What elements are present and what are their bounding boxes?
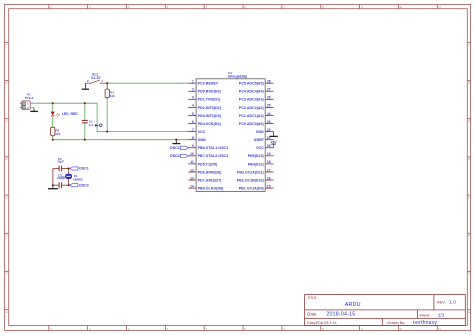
wire LED to R2 segment [52, 117, 54, 127]
U1 pin 28 PC5.ADC5(A5) (right) [239, 80, 274, 86]
svg-text:23: 23 [267, 120, 271, 124]
svg-text:22pF: 22pF [57, 159, 64, 163]
capacitor C1 0.1 [82, 119, 94, 127]
svg-text:D: D [6, 157, 8, 161]
svg-text:4: 4 [192, 104, 194, 108]
svg-text:C: C [468, 119, 470, 123]
svg-text:AREF: AREF [254, 138, 265, 142]
svg-text:8: 8 [192, 136, 194, 140]
svg-text:PD6.AIN0(D6): PD6.AIN0(D6) [198, 170, 223, 174]
ground symbol at U1 pin22 GND [269, 132, 278, 137]
U1 pin 15 PB1.OC1A(D9) (right) [239, 184, 274, 190]
U1 pin 1 PC6.RESET (left) [188, 80, 219, 86]
svg-text:OSC1: OSC1 [79, 167, 89, 171]
svg-text:25: 25 [267, 104, 271, 108]
resistor R2 470 [51, 127, 61, 136]
svg-text:27: 27 [267, 88, 271, 92]
U1 pin 19 PB5(D13) (right) [248, 152, 274, 158]
svg-text:PD4.XCK(D4): PD4.XCK(D4) [198, 122, 222, 126]
svg-text:PD0.RXD(D0): PD0.RXD(D0) [198, 90, 222, 94]
svg-text:PB4(D12): PB4(D12) [248, 162, 265, 166]
svg-text:18: 18 [267, 160, 271, 164]
svg-text:2018-04-15: 2018-04-15 [326, 311, 355, 317]
svg-text:VCC: VCC [256, 146, 264, 150]
svg-text:G: G [6, 272, 8, 276]
svg-text:19: 19 [267, 152, 271, 156]
svg-text:PLS-2: PLS-2 [25, 96, 34, 100]
svg-text:G: G [468, 272, 470, 276]
svg-text:D: D [468, 157, 470, 161]
U1 pin 20 VCC (right) [256, 144, 273, 150]
junction node OSC1 at crystal [68, 167, 70, 169]
svg-text:PC4.ADC4(A4): PC4.ADC4(A4) [239, 90, 265, 94]
resistor R1 10k [105, 83, 115, 98]
svg-text:1: 1 [192, 80, 194, 84]
capacitor C3 22pF [53, 173, 69, 188]
U1 pin 5 PD3.INT1(D3) (left) [188, 112, 221, 118]
LED LED_RED [51, 112, 78, 117]
U1 pin 16 PB2.OC1B(D10) (right) [237, 176, 274, 182]
svg-text:5: 5 [192, 112, 194, 116]
wire P1 pin2 to ground [30, 108, 34, 111]
U1 pin 4 PD2.INT0(D2) (left) [188, 104, 221, 110]
svg-text:GND: GND [256, 130, 264, 134]
net flag arrow-circle beside C1 value [95, 124, 102, 127]
svg-text:1.0: 1.0 [449, 300, 456, 305]
svg-text:E: E [468, 195, 470, 199]
wire LED branch upper segment [52, 103, 54, 111]
svg-text:26: 26 [267, 96, 271, 100]
svg-text:PB3.OC2A(D11): PB3.OC2A(D11) [237, 170, 265, 174]
svg-text:12: 12 [190, 168, 194, 172]
junction node VCC rail at R1 [106, 131, 108, 133]
svg-text:PD2.INT0(D2): PD2.INT0(D2) [198, 106, 222, 110]
U1 pin 27 PC4.ADC4(A4) (right) [239, 88, 274, 94]
U1 pin 24 PC1.ADC1(A1) (right) [239, 112, 274, 118]
crystal X1 16MHZ [61, 169, 83, 186]
svg-text:EasyEDA V5.3.14: EasyEDA V5.3.14 [307, 321, 336, 325]
junction node crystal ground [52, 184, 54, 186]
svg-text:B: B [468, 81, 470, 85]
junction node OSC2 at crystal [68, 184, 70, 186]
svg-text:24: 24 [267, 112, 271, 116]
U1 pin 3 PD1.TXD(D1) (left) [188, 96, 221, 102]
capacitor C2 22pF [53, 157, 69, 172]
U1 pin 11 PD5.T1(D5) (left) [188, 160, 218, 166]
svg-text:14: 14 [190, 184, 194, 188]
switch KL1 KL-S7 [86, 72, 108, 83]
svg-text:OSC2: OSC2 [79, 183, 89, 187]
svg-text:TITLE:: TITLE: [307, 296, 317, 300]
svg-text:+5V: +5V [270, 140, 277, 144]
svg-text:A: A [6, 43, 8, 47]
U1 pin 26 PC3.ADC3(A3) (right) [239, 96, 274, 102]
U1 pin 6 PD4.XCK(D4) (left) [188, 120, 221, 126]
U1 pin 2 PD0.RXD(D0) (left) [188, 88, 221, 94]
ground symbol below P1 [30, 109, 38, 112]
svg-text:PD5.T1(D5): PD5.T1(D5) [198, 162, 218, 166]
connector P1 PLS-2 [20, 92, 34, 110]
U1 pin 14 PB0.CLKO(D8) (left) [188, 184, 224, 190]
svg-text:OSC2: OSC2 [170, 154, 180, 158]
svg-text:OSC1: OSC1 [170, 146, 180, 150]
svg-text:PB7.XTAL2.OSC2: PB7.XTAL2.OSC2 [198, 154, 229, 158]
svg-text:7: 7 [192, 128, 194, 132]
U1 pin 8 GND (left) [188, 136, 206, 142]
svg-text:28: 28 [267, 80, 271, 84]
U1 pin 22 GND (right) [256, 128, 274, 134]
svg-text:E: E [6, 195, 8, 199]
svg-text:21: 21 [267, 136, 271, 140]
U1 pin 21 AREF (right) [254, 136, 274, 142]
svg-text:H: H [468, 310, 470, 314]
svg-text:15: 15 [267, 184, 271, 188]
title block [305, 295, 466, 326]
svg-text:17: 17 [267, 168, 271, 172]
svg-text:PB2.OC1B(D10): PB2.OC1B(D10) [237, 178, 265, 182]
svg-text:C: C [6, 119, 8, 123]
svg-text:KL-S7: KL-S7 [91, 76, 100, 80]
svg-text:H: H [6, 310, 8, 314]
net port OSC2 at crystal [70, 183, 89, 187]
wire C1 upper segment [84, 103, 86, 120]
svg-text:11: 11 [190, 160, 194, 164]
svg-text:22: 22 [267, 128, 271, 132]
svg-text:GND: GND [198, 138, 207, 142]
svg-text:REV:: REV: [437, 301, 446, 305]
svg-text:A: A [468, 43, 470, 47]
net port OSC1 at U1 pin9 [170, 146, 189, 150]
wire R2 to GND rail segment [52, 136, 54, 140]
ground symbol below crystal column [48, 185, 58, 189]
svg-text:PB1.OC1A(D9): PB1.OC1A(D9) [239, 186, 265, 190]
svg-text:9: 9 [192, 144, 194, 148]
svg-text:10k: 10k [110, 94, 115, 98]
svg-text:PB0.CLKO(D8): PB0.CLKO(D8) [198, 186, 225, 190]
IC U1 atmega328p [196, 71, 265, 191]
svg-text:Drawn By:: Drawn By: [387, 320, 405, 325]
svg-text:northnavy: northnavy [413, 320, 437, 326]
svg-text:VCC: VCC [198, 130, 206, 134]
svg-text:470: 470 [55, 132, 60, 136]
U1 pin 23 PC0.ADC0(A0) (right) [239, 120, 274, 126]
svg-text:PC0.ADC0(A0): PC0.ADC0(A0) [239, 122, 265, 126]
svg-text:PD7.AIN1(D7): PD7.AIN1(D7) [198, 178, 223, 182]
svg-text:16MHZ: 16MHZ [73, 178, 83, 182]
U1 pin 13 PD7.AIN1(D7) (left) [188, 176, 222, 182]
ground symbol at U1 pin8 GND [172, 140, 180, 144]
wire crystal left column C2-C3 [52, 169, 54, 186]
wire RESET net from switch to U1 pin1 [107, 82, 188, 84]
svg-text:LED_RED: LED_RED [62, 112, 78, 116]
svg-text:PC2.ADC2(A2): PC2.ADC2(A2) [239, 106, 265, 110]
svg-text:Sheet:: Sheet: [419, 314, 430, 318]
svg-text:PC1.ADC1(A1): PC1.ADC1(A1) [239, 114, 265, 118]
svg-text:PD3.INT1(D3): PD3.INT1(D3) [198, 114, 222, 118]
wire R1 to VCC rail segment [106, 98, 108, 132]
U1 pin 18 PB4(D12) (right) [248, 160, 274, 166]
junction node RESET at R1 [106, 82, 108, 84]
junction node top rail at C1 [84, 102, 86, 104]
svg-text:0.1: 0.1 [89, 123, 94, 127]
+5V power flag at U1 pin20 VCC [270, 140, 277, 147]
U1 pin 12 PD6.AIN0(D6) (left) [188, 168, 222, 174]
junction node GND rail at ground symbol [175, 139, 177, 141]
svg-text:ARDU: ARDU [345, 302, 361, 308]
svg-text:Date:: Date: [307, 311, 317, 316]
svg-text:PC5.ADC5(A5): PC5.ADC5(A5) [239, 82, 265, 86]
U1 pin 17 PB3.OC2A(D11) (right) [237, 168, 274, 174]
svg-text:3: 3 [192, 96, 194, 100]
net port OSC2 at U1 pin10 [170, 154, 189, 158]
junction node GND rail at C1 [84, 139, 86, 141]
svg-text:20: 20 [267, 144, 271, 148]
U1 pin 10 PB7.XTAL2.OSC2 (left) [188, 152, 228, 158]
svg-text:PB5(D13): PB5(D13) [248, 154, 265, 158]
U1 pin 7 VCC (left) [188, 128, 205, 134]
svg-text:PD1.TXD(D1): PD1.TXD(D1) [198, 98, 222, 102]
svg-text:2: 2 [192, 88, 194, 92]
U1 pin 25 PC2.ADC2(A2) (right) [239, 104, 274, 110]
svg-text:atmega328p: atmega328p [228, 75, 247, 79]
svg-text:B: B [6, 81, 8, 85]
U1 pin 9 PB6.XTAL1.OSC1 (left) [188, 144, 228, 150]
svg-text:1/1: 1/1 [438, 313, 445, 319]
junction node GND rail at R2 [52, 139, 54, 141]
svg-text:PB6.XTAL1.OSC1: PB6.XTAL1.OSC1 [198, 146, 229, 150]
wire GND rail to U1 pin8 [53, 139, 189, 141]
svg-text:PC6.RESET: PC6.RESET [198, 82, 219, 86]
svg-text:PC3.ADC3(A3): PC3.ADC3(A3) [239, 98, 265, 102]
svg-text:13: 13 [190, 176, 194, 180]
svg-text:6: 6 [192, 120, 194, 124]
svg-text:10: 10 [190, 152, 194, 156]
wire C1 lower segment [84, 123, 86, 139]
wire +5V top rail from P1 to VCC rail corner [30, 103, 188, 131]
ground symbol below switch pin2 [82, 83, 89, 89]
svg-text:16: 16 [267, 176, 271, 180]
junction node top rail at LED [52, 102, 54, 104]
net port OSC1 at crystal [70, 167, 89, 171]
